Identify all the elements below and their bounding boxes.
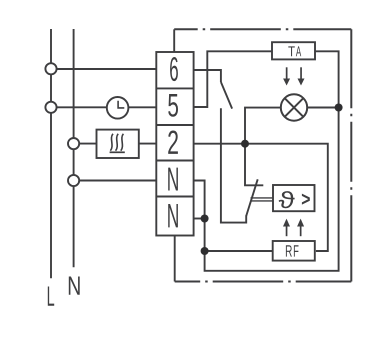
junction node lamp right / N vertical [335, 104, 343, 112]
terminal circle on L (bottom) [45, 102, 56, 113]
wire RF left [205, 250, 273, 252]
wire L rail [50, 29, 52, 278]
label gNb (N) [69, 277, 80, 295]
label gF (F) [294, 245, 299, 256]
label gR (R) [286, 245, 292, 256]
lamp X1 (signal lamp) [281, 94, 307, 120]
wire L to terminal 6 [51, 68, 156, 70]
clock symbol (time switch) [107, 97, 129, 119]
wire terminal 6 to clock switch [194, 70, 221, 82]
device boundary dash-dot border right [350, 29, 352, 281]
label gL (L) [48, 287, 54, 306]
wire L to clock to terminal 5 [51, 106, 156, 108]
terminal circle on N (N cell) [68, 175, 79, 186]
TA box [272, 42, 315, 59]
device boundary dash-dot border top [174, 28, 351, 30]
terminal circle on L (top) [45, 63, 56, 74]
label gN1 (N) [168, 168, 178, 191]
RF arrows (up) [283, 219, 304, 237]
label g5 (5) [168, 94, 178, 117]
junction node RF left [201, 247, 209, 255]
label gN2 (N) [168, 204, 178, 227]
wire N rail [73, 29, 75, 267]
wire clock switch contact down to thermostat switch [221, 108, 246, 222]
TA arrows (down) [283, 67, 304, 85]
label gA (A) [296, 46, 301, 56]
wire N to heater to terminal 2 [74, 143, 157, 145]
wire N to terminal N [74, 180, 157, 182]
label g6 (6) [170, 57, 178, 81]
device boundary left vertical (bottom) [174, 236, 176, 282]
wire TA right to N rail vertical, down, bottom N return [194, 51, 339, 270]
wire lamp left with corner down to node [245, 108, 281, 144]
label gth (ϑ) [279, 191, 295, 208]
device boundary dash-dot border bottom [175, 281, 352, 283]
thermostat fixed contact hook [245, 144, 263, 186]
wire terminal 2 to node, right, down to RF right [194, 144, 328, 251]
heater (floor heating) box [97, 130, 139, 158]
thermostat box U (theta >) [273, 185, 315, 211]
terminal circle on N (heater) [68, 138, 79, 149]
terminal block [156, 52, 193, 236]
label gT (T) [288, 46, 295, 56]
junction node N terminals [201, 215, 209, 223]
wire terminal 5 riser to TA line [194, 51, 272, 107]
label ggt (>) [302, 194, 310, 205]
wire terminal N(2) stub [194, 218, 205, 220]
thermostat switch blade [246, 179, 258, 216]
device boundary left vertical (top) [173, 29, 175, 52]
clock switch blade (open) [221, 82, 232, 109]
RF box (remote sensor) [273, 241, 315, 261]
label g2 (2) [168, 131, 178, 154]
wire lamp right [307, 107, 338, 109]
mechanical link to thermostat (double line) [251, 198, 274, 201]
junction node terminal2/lamp/thermostat [241, 140, 249, 148]
